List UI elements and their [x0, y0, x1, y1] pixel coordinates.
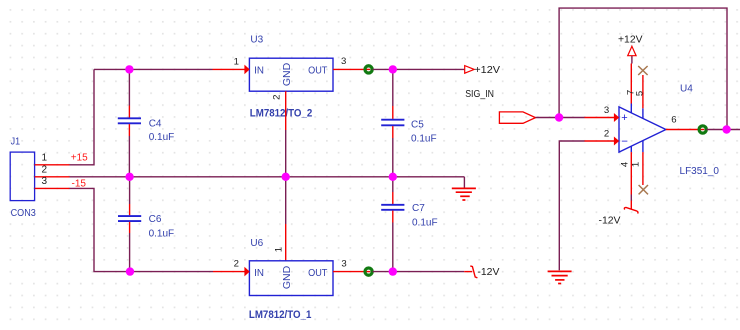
svg-text:2: 2 — [272, 95, 283, 100]
wire middle rail — [70, 176, 465, 178]
svg-text:IN: IN — [254, 267, 264, 279]
junction op-amp output — [722, 125, 730, 133]
svg-text:OUT: OUT — [308, 267, 328, 279]
J1 pin 2 — [35, 176, 70, 178]
svg-text:5: 5 — [635, 91, 646, 96]
svg-text:1: 1 — [630, 162, 641, 167]
regulator U6 LM7812/TO_1 — [249, 238, 333, 321]
power symbol -12V (op-amp, bar) — [599, 201, 638, 227]
power symbol +12V (op-amp) — [618, 34, 643, 63]
U6 pin 3 (OUT) — [333, 271, 370, 273]
U4 pin 3 (+) — [585, 117, 615, 119]
capacitor C7 — [381, 177, 437, 272]
wire op-amp out to edge — [707, 129, 740, 131]
J1 pin 1 — [35, 164, 70, 166]
no-connect X pin 1 — [639, 185, 648, 194]
U4 pin 6 (out) — [666, 129, 703, 131]
regulator U3 LM7812/TO_2 — [249, 35, 333, 120]
junction mid C4/C6 — [125, 173, 133, 181]
svg-text:0.1uF: 0.1uF — [149, 132, 175, 143]
svg-text:U6: U6 — [250, 238, 263, 249]
svg-text:-12V: -12V — [599, 216, 621, 227]
capacitor C5 — [381, 69, 436, 176]
wire U3 GND to rail — [285, 130, 287, 224]
junction bottom C7 — [389, 267, 397, 275]
U3 pin 2 (GND) — [285, 91, 287, 130]
wire U3 out to +12V — [373, 68, 465, 70]
svg-text:LM7812/TO_2: LM7812/TO_2 — [250, 107, 312, 119]
node: U3 output ring — [365, 66, 372, 73]
wire op-amp - input to ground — [559, 141, 584, 270]
wire top rail to U3 input — [94, 68, 213, 70]
svg-text:3: 3 — [341, 258, 346, 269]
wire J1 pin1 to top rail — [70, 69, 95, 164]
capacitor C6 — [118, 177, 174, 272]
svg-text:+: + — [621, 112, 627, 124]
svg-text:2: 2 — [604, 128, 609, 139]
wire J1 pin3 to bottom rail — [70, 188, 214, 271]
port SIG_IN — [499, 112, 535, 123]
wire U6 out to -12V — [373, 271, 465, 273]
svg-text:C4: C4 — [149, 119, 162, 130]
svg-text:LF351_0: LF351_0 — [680, 166, 720, 177]
node: op-amp output ring — [699, 126, 706, 133]
svg-text:+12V: +12V — [474, 65, 500, 76]
svg-text:C7: C7 — [412, 203, 425, 214]
svg-text:0.1uF: 0.1uF — [411, 134, 437, 145]
svg-text:U3: U3 — [250, 35, 263, 46]
ground (middle rail) — [452, 177, 476, 200]
J1 pin 3 — [35, 187, 70, 189]
wire port to op-amp + input — [536, 117, 585, 119]
svg-text:1: 1 — [274, 247, 285, 252]
power symbol -12V (bottom rail, bar) — [464, 266, 500, 278]
U4 pin 1 (nc) — [630, 141, 643, 185]
svg-text:+12V: +12V — [618, 34, 643, 45]
connector J1 — [10, 137, 36, 220]
junction mid C5/C7 — [389, 173, 397, 181]
svg-text:U4: U4 — [680, 84, 693, 95]
junction bottom C6 — [126, 267, 134, 275]
svg-text:4: 4 — [619, 161, 630, 167]
svg-text:1: 1 — [234, 56, 239, 67]
svg-text:1: 1 — [42, 153, 48, 164]
feedback wire (output to + node) — [559, 8, 727, 129]
svg-text:SIG_IN: SIG_IN — [465, 89, 494, 100]
svg-text:3: 3 — [604, 105, 609, 116]
svg-text:2: 2 — [42, 164, 48, 175]
U4 pin 5 (nc) — [635, 75, 646, 118]
svg-text:C5: C5 — [411, 120, 424, 131]
svg-text:6: 6 — [671, 115, 676, 126]
no-connect X pin 5 — [638, 66, 647, 75]
svg-text:−: − — [621, 136, 628, 148]
svg-text:OUT: OUT — [308, 65, 328, 77]
U6 pin 1 (GND) — [285, 224, 287, 261]
svg-text:LM7812/TO_1: LM7812/TO_1 — [249, 309, 312, 321]
junction top-left — [125, 65, 133, 73]
junction mid GND column — [282, 173, 290, 181]
U6 pin 2 (IN) — [213, 271, 245, 273]
U4 pin 4 (V-) — [619, 146, 631, 200]
op-amp U4 LF351 — [619, 84, 719, 178]
svg-text:IN: IN — [254, 65, 264, 77]
junction top C5 — [389, 65, 397, 73]
svg-text:J1: J1 — [11, 137, 21, 148]
svg-text:3: 3 — [42, 176, 48, 187]
svg-text:3: 3 — [341, 56, 346, 67]
svg-text:+15: +15 — [71, 152, 88, 163]
node: U6 output ring — [365, 268, 372, 275]
U4 pin 7 (V+) — [626, 64, 637, 113]
ground (op-amp - input) — [548, 271, 572, 283]
junction op-amp + input — [555, 113, 563, 121]
svg-text:-12V: -12V — [477, 267, 499, 278]
power symbol +12V (top rail) — [465, 65, 501, 76]
U4 pin 2 (-) — [585, 140, 615, 142]
svg-text:CON3: CON3 — [11, 208, 37, 219]
svg-text:GND: GND — [281, 62, 293, 86]
svg-text:2: 2 — [234, 258, 239, 269]
svg-text:0.1uF: 0.1uF — [149, 229, 175, 240]
svg-text:0.1uF: 0.1uF — [412, 218, 438, 229]
svg-text:GND: GND — [281, 265, 293, 289]
capacitor C4 — [118, 69, 174, 176]
U3 pin 1 (IN) — [213, 68, 246, 70]
svg-text:C6: C6 — [149, 214, 162, 225]
U3 pin 3 (OUT) — [333, 68, 370, 70]
